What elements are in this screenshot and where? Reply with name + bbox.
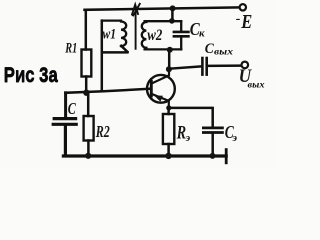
transistor base bar xyxy=(150,81,153,96)
svg-text:C: C xyxy=(68,99,76,118)
wire top supply rail xyxy=(85,7,240,9)
inductor w2 winding (left side of tank) xyxy=(142,22,147,48)
svg-text:Рис 3а: Рис 3а xyxy=(4,64,58,87)
transistor emitter arrowhead (PNP, points to base) xyxy=(154,95,163,101)
svg-text:R: R xyxy=(176,123,186,143)
wire base line xyxy=(65,89,150,93)
svg-text:вых: вых xyxy=(248,81,265,91)
resistor R2 xyxy=(84,116,94,141)
wire collector lead xyxy=(168,50,171,70)
wire R2 branch from base node xyxy=(87,94,90,116)
transistor emitter stroke with arrow xyxy=(152,94,169,108)
svg-text:э: э xyxy=(232,133,238,144)
tuning arrow between w1 and w2 xyxy=(132,4,140,49)
resistor Re xyxy=(163,114,174,144)
wire Re bottom to ground rail xyxy=(167,144,170,156)
node collector-output junction dot xyxy=(166,66,172,72)
node Re-ground junction dot xyxy=(165,153,171,159)
capacitor Ck (right side of tank) xyxy=(180,21,182,30)
terminal Uvyx circle xyxy=(242,62,249,69)
capacitor C xyxy=(53,119,76,125)
wire R2 bottom to ground rail xyxy=(87,141,90,156)
node Ce-ground junction dot xyxy=(210,153,216,159)
svg-text:к: к xyxy=(199,28,205,40)
svg-text:-: - xyxy=(236,12,241,27)
svg-text:R2: R2 xyxy=(95,122,110,141)
wire tank top edge xyxy=(145,20,182,22)
transistor VT1 circle xyxy=(147,75,175,103)
wire R1 bottom to base node xyxy=(85,77,88,93)
node rail-tank junction dot xyxy=(170,5,176,11)
wire rail to tank top xyxy=(171,8,174,20)
wire w1 left lead down to base line xyxy=(101,21,104,92)
wire emitter to Ce branch xyxy=(169,108,213,127)
node emitter junction xyxy=(166,105,171,110)
wire Ce bottom to ground rail xyxy=(211,134,214,156)
wire C branch down from base line xyxy=(64,93,67,117)
wire Cvyx to output terminal xyxy=(207,64,241,67)
svg-text:R1: R1 xyxy=(65,41,78,57)
terminal -E circle xyxy=(240,4,246,10)
wire ground bottom rail xyxy=(63,154,226,157)
capacitor Ce xyxy=(203,128,222,133)
svg-text:w1: w1 xyxy=(103,27,117,43)
ground rail end bar xyxy=(225,150,228,163)
svg-text:w2: w2 xyxy=(147,27,162,44)
svg-text:E: E xyxy=(240,11,252,33)
wire emitter to Re xyxy=(167,108,170,114)
svg-text:вых: вых xyxy=(214,48,233,58)
resistor R1 xyxy=(82,50,92,77)
node A base junction dot xyxy=(83,90,89,96)
wire tank bottom edge xyxy=(145,48,182,50)
node R2-ground junction dot xyxy=(85,153,91,159)
svg-text:э: э xyxy=(185,133,191,144)
node tank top dot xyxy=(169,18,175,24)
inductor w1 winding xyxy=(102,21,129,53)
wire output line to Cvyx xyxy=(169,66,202,68)
capacitor Cvyx xyxy=(202,58,206,75)
wire R1 branch vertical from rail xyxy=(85,10,88,50)
wire C bottom to ground rail xyxy=(64,126,67,156)
transistor collector stroke xyxy=(152,70,169,83)
node tank bottom dot xyxy=(167,47,173,53)
